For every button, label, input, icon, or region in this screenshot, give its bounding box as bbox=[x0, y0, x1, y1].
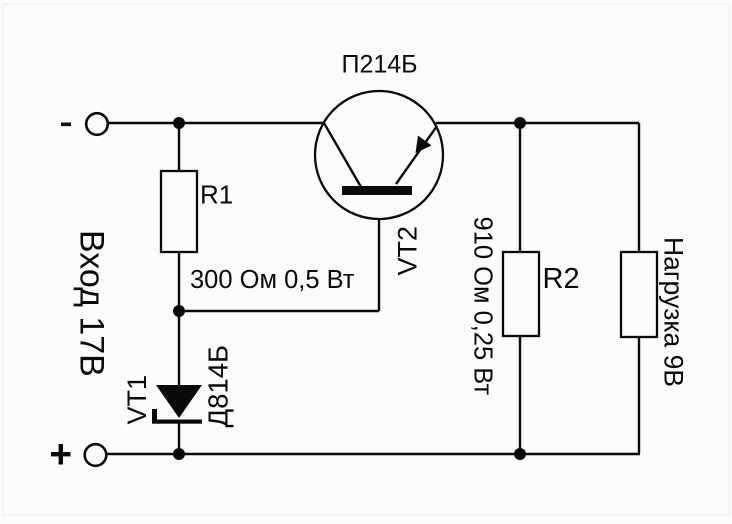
wire: R1 bottom through node B to zener VT1 anode bbox=[178, 252, 180, 386]
VT1 cathode bar zener tick bbox=[152, 409, 157, 421]
plus polarity sign bbox=[51, 444, 71, 465]
svg-text:R1: R1 bbox=[200, 180, 233, 210]
svg-text:Нагрузка 9В: Нагрузка 9В bbox=[659, 237, 689, 387]
svg-text:VT2: VT2 bbox=[393, 226, 423, 276]
zener diode VT1 bbox=[152, 385, 202, 424]
node C junction (top rail / R2) bbox=[514, 117, 526, 129]
VT2 emitter lead (right diagonal) bbox=[396, 126, 437, 184]
wire: R2 bottom down to node E bbox=[519, 336, 521, 454]
resistor R2 body bbox=[503, 252, 539, 336]
wire: node C down to R2 top bbox=[519, 123, 521, 252]
wire: node B to VT2 base (horizontal) bbox=[179, 310, 379, 312]
wire: VT2 right lead to load top corner (top rail right) bbox=[436, 122, 639, 124]
VT2 body circle bbox=[315, 91, 443, 219]
node D junction (bottom rail / zener) bbox=[173, 448, 185, 460]
wire: minus terminal to VT2 left lead (top rail left) bbox=[108, 122, 324, 124]
transistor VT2 bbox=[315, 91, 443, 219]
node B junction (R1 / base / zener) bbox=[173, 305, 185, 317]
svg-text:910 Ом 0,25 Вт: 910 Ом 0,25 Вт bbox=[469, 217, 497, 396]
svg-text:VT1: VT1 bbox=[122, 375, 152, 425]
svg-text:300 Ом 0,5 Вт: 300 Ом 0,5 Вт bbox=[190, 266, 355, 294]
node E junction (bottom rail / R2) bbox=[514, 448, 526, 460]
svg-text:R2: R2 bbox=[543, 263, 580, 295]
wire: node A down to R1 top bbox=[178, 123, 180, 171]
svg-text:Д814Б: Д814Б bbox=[203, 345, 234, 428]
svg-text:Вход 17В: Вход 17В bbox=[73, 230, 111, 377]
wire: load bottom vertical drop bbox=[638, 337, 640, 454]
VT2 base bar bbox=[342, 186, 412, 195]
input terminal (-) bbox=[86, 113, 108, 135]
VT1 anode triangle bbox=[156, 385, 202, 418]
minus polarity sign bbox=[61, 123, 71, 127]
wire: zener VT1 cathode down to node D bbox=[178, 421, 180, 455]
VT2 collector lead (left diagonal) bbox=[324, 123, 361, 187]
wire: load top vertical drop bbox=[638, 123, 640, 252]
wire: plus terminal along bottom rail to load bottom corner bbox=[107, 453, 640, 455]
load resistor body (Нагрузка) bbox=[621, 252, 657, 337]
svg-text:П214Б: П214Б bbox=[342, 51, 418, 79]
wire: VT2 base lead (vertical) bbox=[378, 194, 380, 311]
VT2 emitter arrow bbox=[416, 136, 432, 154]
resistor R1 body bbox=[161, 171, 197, 252]
input terminal (+) bbox=[85, 444, 107, 466]
VT1 cathode bar bbox=[152, 420, 202, 424]
node A junction (top rail / R1) bbox=[173, 117, 185, 129]
